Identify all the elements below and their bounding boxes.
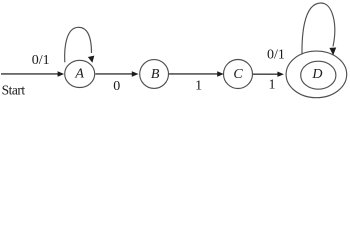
svg-text:1: 1 (269, 78, 276, 93)
svg-text:D: D (311, 67, 322, 82)
svg-text:0: 0 (113, 79, 120, 94)
svg-text:C: C (233, 67, 243, 82)
svg-text:A: A (74, 67, 84, 82)
svg-text:B: B (151, 67, 160, 82)
svg-text:1: 1 (195, 79, 202, 94)
svg-text:0/1: 0/1 (32, 53, 50, 68)
svg-text:0/1: 0/1 (267, 48, 285, 63)
svg-text:Start: Start (2, 82, 26, 97)
